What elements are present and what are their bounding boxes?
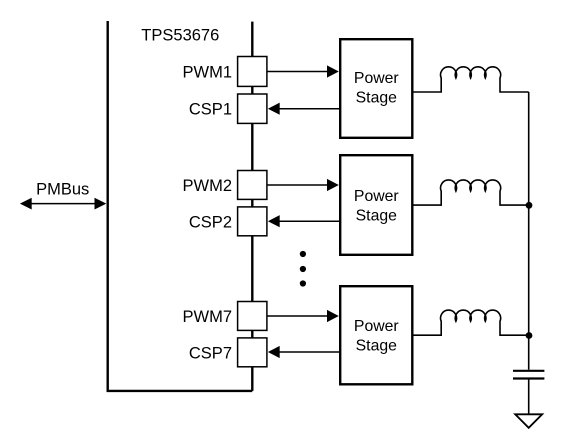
- pin CSP2 square: [238, 207, 267, 236]
- wire: PMBus double-headed arrow: [20, 198, 106, 210]
- svg-text:Power: Power: [354, 70, 399, 87]
- svg-text:Power: Power: [354, 188, 399, 205]
- wire: power stage 3 to CSP7 with arrowhead: [268, 346, 340, 358]
- svg-text:Stage: Stage: [356, 337, 397, 354]
- pin PWM7 square: [238, 302, 267, 331]
- svg-text:Stage: Stage: [356, 207, 397, 224]
- wire: PWM2 to power stage 2 with arrowhead: [267, 179, 339, 191]
- svg-text:Stage: Stage: [356, 90, 397, 107]
- svg-text:Power: Power: [354, 318, 399, 335]
- ellipsis dots between channel 2 and channel 7: [300, 251, 306, 287]
- wire: power stage 1 to CSP1 with arrowhead: [268, 103, 340, 115]
- svg-text:PWM1: PWM1: [183, 64, 233, 82]
- inductor L2 (channel 2 output): [413, 180, 529, 205]
- svg-text:TPS53676: TPS53676: [141, 26, 219, 44]
- svg-text:CSP1: CSP1: [189, 101, 232, 119]
- svg-text:PMBus: PMBus: [36, 181, 89, 199]
- wire: PWM1 to power stage 1 with arrowhead: [267, 65, 339, 77]
- svg-text:PWM2: PWM2: [183, 177, 233, 195]
- svg-text:CSP7: CSP7: [189, 344, 232, 362]
- power stage block 2: [340, 155, 412, 255]
- wire: power stage 2 to CSP2 with arrowhead: [268, 215, 340, 227]
- junction dot at L3 / rail: [526, 332, 533, 339]
- pin PWM1 square: [238, 57, 267, 87]
- svg-text:CSP2: CSP2: [189, 213, 232, 231]
- power stage block 3: [340, 286, 412, 384]
- controller U1 pin rail (right edge vertical bus): [251, 22, 253, 391]
- pin CSP1 square: [238, 94, 267, 123]
- wire: output rail (VOUT net): [528, 92, 530, 370]
- capacitor C1 (output cap): [513, 371, 544, 414]
- junction dot at L2 / rail: [526, 202, 533, 209]
- inductor L3 (channel 7 output): [413, 310, 529, 335]
- pin PWM2 square: [238, 171, 267, 200]
- svg-text:PWM7: PWM7: [183, 308, 233, 326]
- pin CSP7 square: [238, 338, 267, 367]
- inductor L1 (channel 1 output): [413, 67, 529, 92]
- wire: PWM7 to power stage 3 with arrowhead: [267, 310, 339, 322]
- controller U1 TPS53676 outline (left edge and bottom edge): [108, 21, 253, 391]
- power stage block 1: [340, 39, 412, 138]
- ground symbol: [515, 414, 542, 428]
